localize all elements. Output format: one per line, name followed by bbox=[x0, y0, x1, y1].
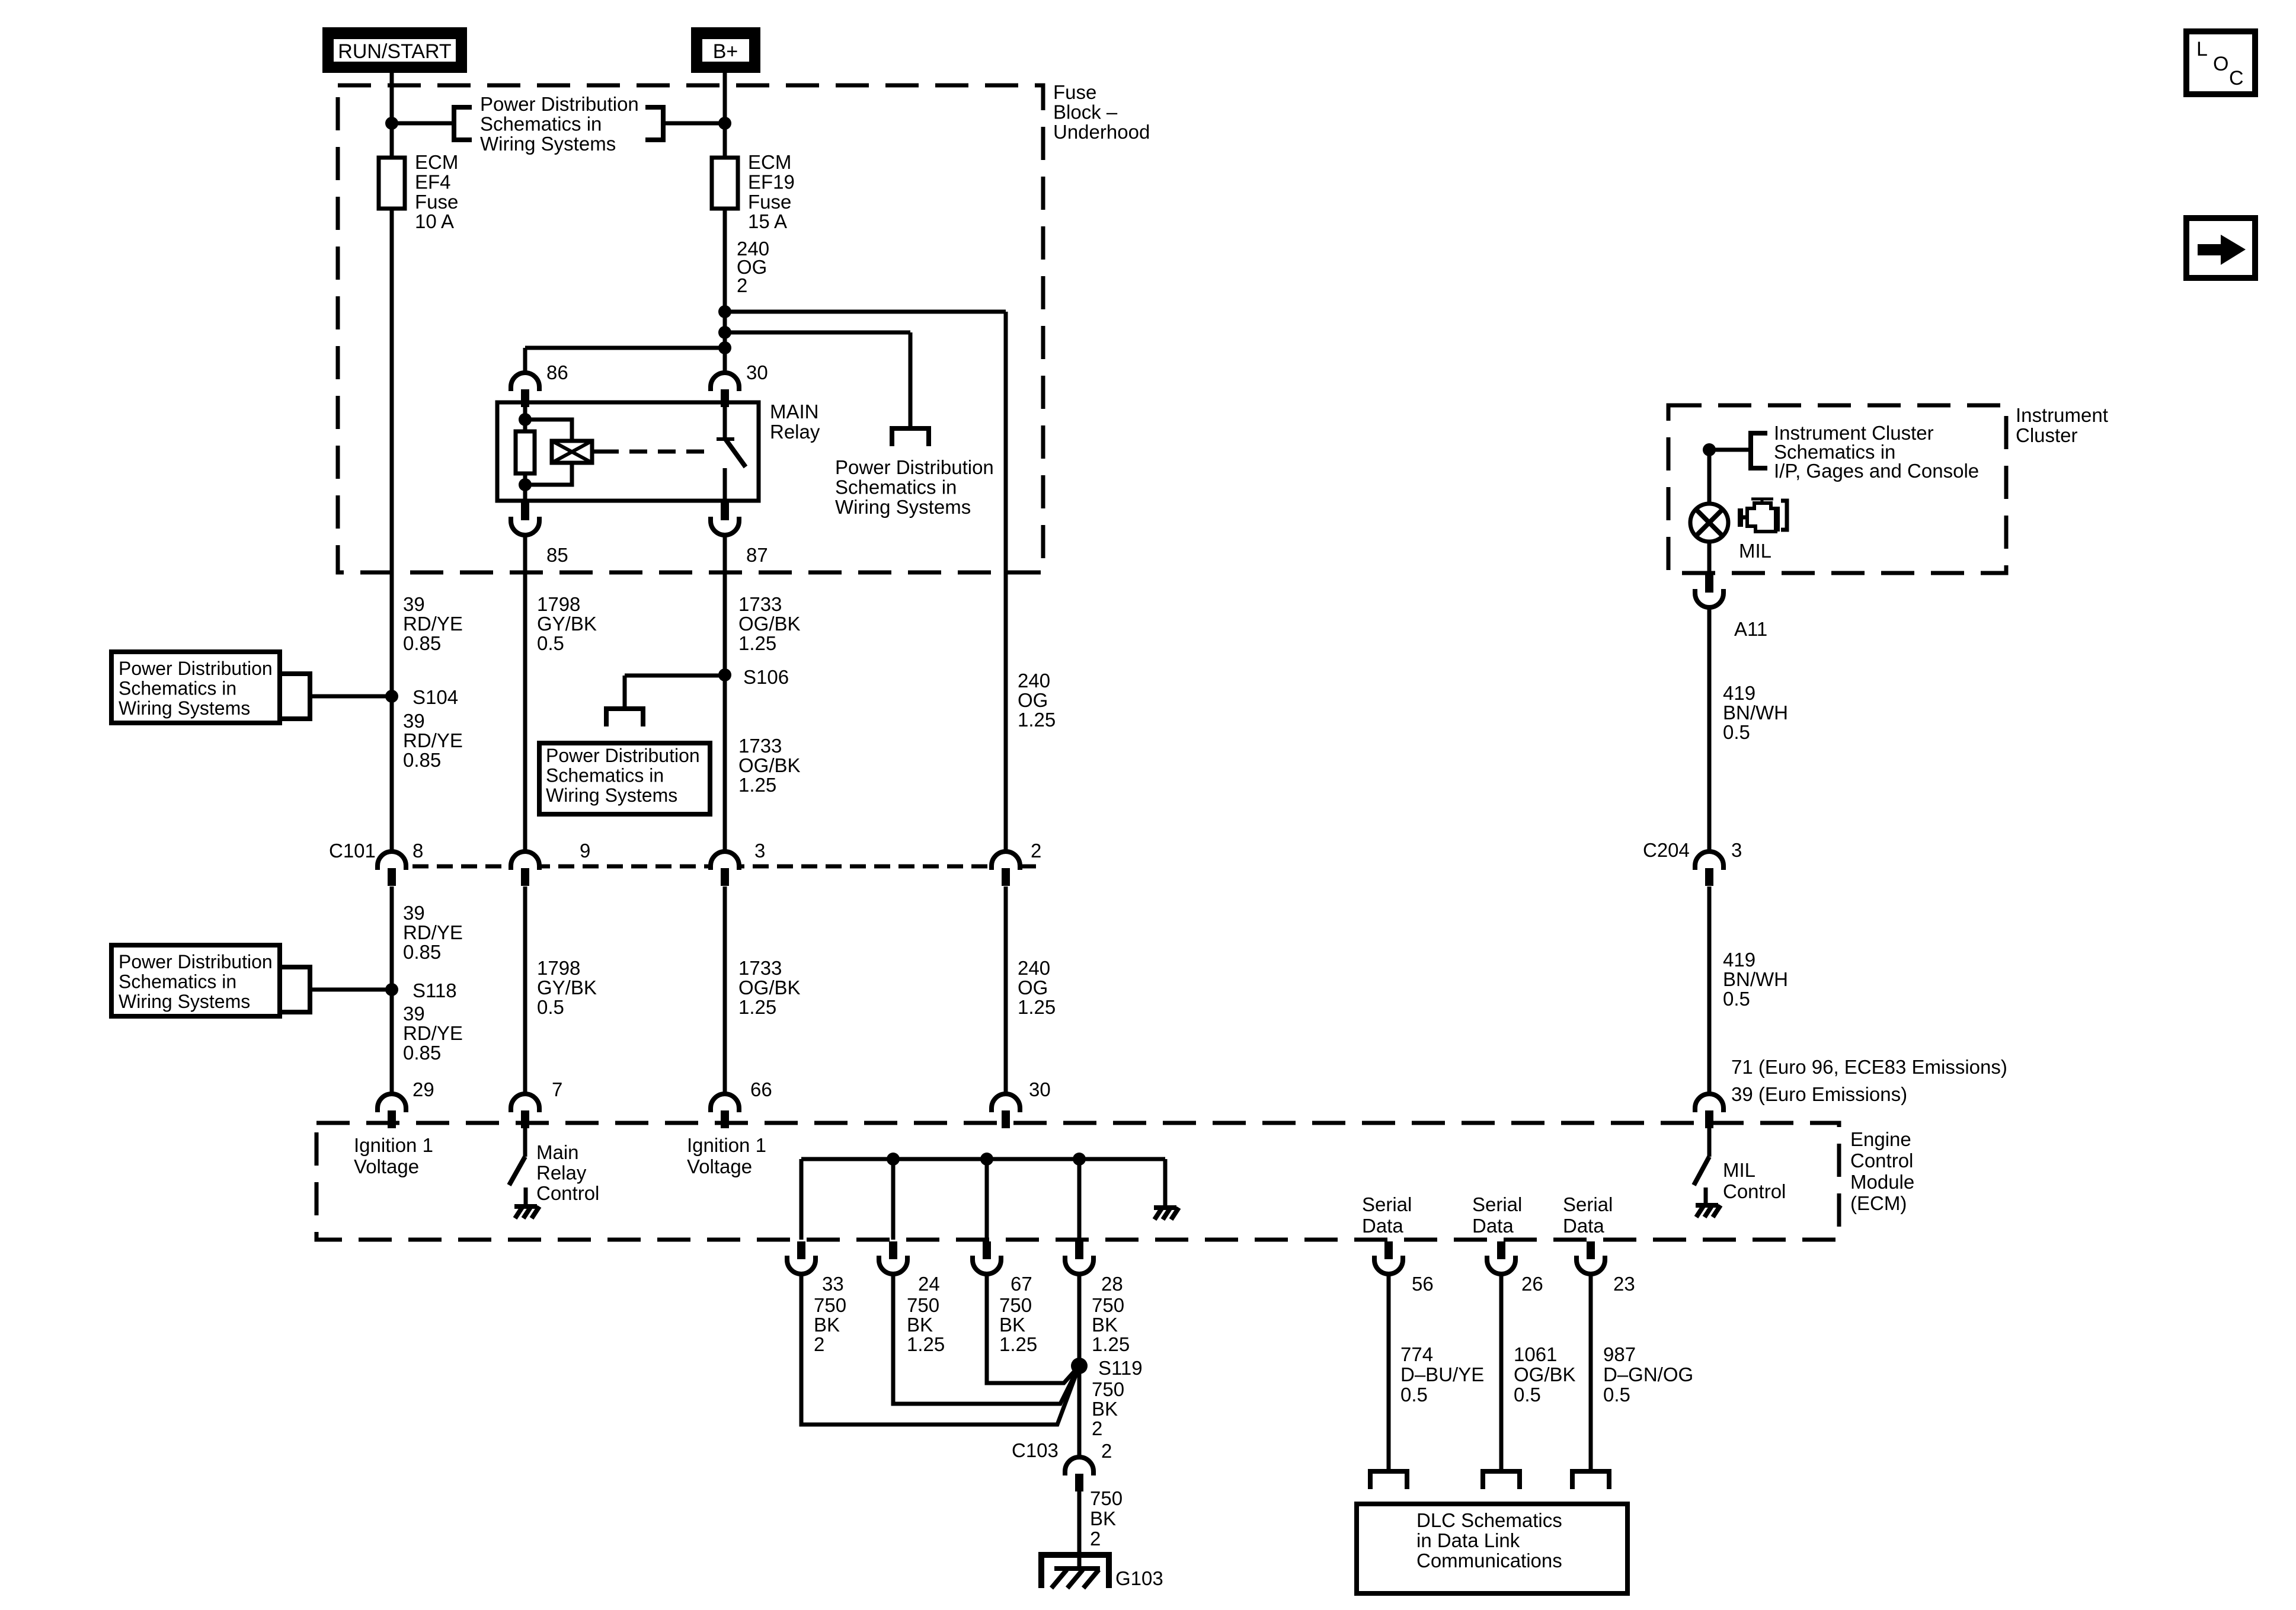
svg-text:Power Distribution: Power Distribution bbox=[119, 951, 273, 972]
svg-text:23: 23 bbox=[1613, 1273, 1635, 1295]
svg-text:RUN/START: RUN/START bbox=[338, 40, 451, 63]
svg-text:Relay: Relay bbox=[536, 1162, 587, 1184]
svg-text:33: 33 bbox=[822, 1273, 844, 1295]
svg-text:S106: S106 bbox=[743, 666, 789, 688]
svg-text:in Data Link: in Data Link bbox=[1416, 1529, 1520, 1551]
svg-text:0.5: 0.5 bbox=[1400, 1384, 1428, 1406]
svg-text:MIL: MIL bbox=[1739, 540, 1771, 562]
svg-text:BK: BK bbox=[1092, 1314, 1118, 1336]
svg-text:7: 7 bbox=[552, 1078, 562, 1100]
svg-text:3: 3 bbox=[1731, 839, 1742, 861]
svg-text:Wiring Systems: Wiring Systems bbox=[480, 133, 616, 155]
svg-text:ECM: ECM bbox=[748, 151, 791, 173]
svg-text:24: 24 bbox=[918, 1273, 940, 1295]
svg-text:2: 2 bbox=[814, 1333, 824, 1355]
svg-text:BN/WH: BN/WH bbox=[1723, 702, 1788, 724]
svg-text:0.5: 0.5 bbox=[537, 632, 564, 654]
svg-text:Data: Data bbox=[1472, 1215, 1514, 1237]
svg-text:0.85: 0.85 bbox=[403, 749, 441, 771]
svg-text:Serial: Serial bbox=[1362, 1193, 1412, 1215]
svg-text:D–BU/YE: D–BU/YE bbox=[1400, 1363, 1484, 1385]
svg-text:MAIN: MAIN bbox=[770, 401, 819, 422]
svg-text:Voltage: Voltage bbox=[354, 1156, 419, 1177]
svg-text:Module: Module bbox=[1850, 1171, 1914, 1193]
svg-text:1798: 1798 bbox=[537, 593, 580, 615]
svg-text:750: 750 bbox=[1092, 1378, 1124, 1400]
svg-text:GY/BK: GY/BK bbox=[537, 613, 597, 635]
svg-text:Data: Data bbox=[1362, 1215, 1403, 1237]
svg-text:MIL: MIL bbox=[1723, 1159, 1755, 1181]
svg-text:I/P, Gages and Console: I/P, Gages and Console bbox=[1774, 460, 1979, 482]
svg-text:56: 56 bbox=[1412, 1273, 1434, 1295]
svg-text:BN/WH: BN/WH bbox=[1723, 968, 1788, 990]
svg-text:BK: BK bbox=[814, 1314, 840, 1336]
svg-text:Voltage: Voltage bbox=[687, 1156, 752, 1177]
svg-text:987: 987 bbox=[1603, 1343, 1636, 1365]
svg-text:1.25: 1.25 bbox=[738, 632, 776, 654]
svg-text:B+: B+ bbox=[713, 40, 738, 63]
svg-text:Wiring Systems: Wiring Systems bbox=[119, 697, 250, 719]
svg-text:9: 9 bbox=[580, 840, 590, 862]
svg-text:71 (Euro 96, ECE83 Emissions): 71 (Euro 96, ECE83 Emissions) bbox=[1731, 1056, 2007, 1078]
svg-text:BK: BK bbox=[1092, 1398, 1118, 1420]
svg-text:2: 2 bbox=[1101, 1440, 1112, 1462]
svg-text:1.25: 1.25 bbox=[738, 774, 776, 796]
svg-text:66: 66 bbox=[750, 1078, 772, 1100]
svg-text:Ignition 1: Ignition 1 bbox=[354, 1134, 433, 1156]
svg-text:Schematics in: Schematics in bbox=[835, 476, 957, 498]
svg-text:86: 86 bbox=[546, 361, 568, 383]
svg-text:Power Distribution: Power Distribution bbox=[480, 93, 639, 115]
svg-text:EF19: EF19 bbox=[748, 171, 795, 193]
svg-text:39: 39 bbox=[403, 902, 425, 924]
svg-text:30: 30 bbox=[1029, 1078, 1051, 1100]
svg-text:Fuse: Fuse bbox=[1053, 81, 1096, 103]
svg-text:1.25: 1.25 bbox=[1018, 709, 1056, 731]
svg-text:DLC Schematics: DLC Schematics bbox=[1416, 1509, 1562, 1531]
svg-text:1733: 1733 bbox=[738, 735, 782, 757]
svg-text:1733: 1733 bbox=[738, 593, 782, 615]
svg-text:OG/BK: OG/BK bbox=[738, 613, 801, 635]
svg-text:750: 750 bbox=[1092, 1294, 1124, 1316]
svg-text:Wiring Systems: Wiring Systems bbox=[546, 785, 677, 806]
svg-text:10 A: 10 A bbox=[415, 210, 454, 232]
svg-text:OG: OG bbox=[1018, 977, 1048, 998]
svg-text:Engine: Engine bbox=[1850, 1128, 1911, 1150]
svg-text:2: 2 bbox=[1031, 840, 1041, 862]
svg-text:1.25: 1.25 bbox=[1018, 996, 1056, 1018]
svg-text:0.85: 0.85 bbox=[403, 632, 441, 654]
svg-text:Fuse: Fuse bbox=[748, 191, 791, 213]
svg-text:419: 419 bbox=[1723, 949, 1755, 971]
svg-text:Power Distribution: Power Distribution bbox=[835, 456, 994, 478]
svg-text:29: 29 bbox=[412, 1078, 434, 1100]
svg-text:OG/BK: OG/BK bbox=[738, 977, 801, 998]
svg-text:Communications: Communications bbox=[1416, 1550, 1562, 1571]
svg-text:Power Distribution: Power Distribution bbox=[546, 745, 700, 766]
svg-text:O: O bbox=[2213, 53, 2228, 75]
svg-text:750: 750 bbox=[1090, 1487, 1123, 1509]
svg-text:Wiring Systems: Wiring Systems bbox=[835, 496, 971, 518]
svg-text:28: 28 bbox=[1101, 1273, 1123, 1295]
svg-text:(ECM): (ECM) bbox=[1850, 1192, 1907, 1214]
svg-text:BK: BK bbox=[999, 1314, 1025, 1336]
svg-text:3: 3 bbox=[754, 840, 765, 862]
svg-text:0.5: 0.5 bbox=[1514, 1384, 1541, 1406]
svg-text:30: 30 bbox=[746, 361, 768, 383]
svg-text:67: 67 bbox=[1011, 1273, 1032, 1295]
svg-text:OG/BK: OG/BK bbox=[1514, 1363, 1576, 1385]
svg-text:39: 39 bbox=[403, 1003, 425, 1025]
svg-text:OG/BK: OG/BK bbox=[738, 754, 801, 776]
svg-text:S104: S104 bbox=[412, 686, 458, 708]
svg-text:Schematics in: Schematics in bbox=[546, 765, 664, 786]
svg-text:Wiring Systems: Wiring Systems bbox=[119, 991, 250, 1012]
svg-text:BK: BK bbox=[1090, 1507, 1116, 1529]
svg-text:8: 8 bbox=[412, 840, 423, 862]
svg-text:26: 26 bbox=[1521, 1273, 1543, 1295]
svg-text:Instrument: Instrument bbox=[2016, 404, 2108, 426]
svg-text:C103: C103 bbox=[1012, 1439, 1059, 1461]
svg-text:Block –: Block – bbox=[1053, 101, 1118, 123]
svg-text:D–GN/OG: D–GN/OG bbox=[1603, 1363, 1693, 1385]
svg-text:Serial: Serial bbox=[1563, 1193, 1613, 1215]
svg-text:750: 750 bbox=[907, 1294, 939, 1316]
svg-text:A11: A11 bbox=[1734, 618, 1767, 640]
svg-text:GY/BK: GY/BK bbox=[537, 977, 597, 998]
svg-text:1.25: 1.25 bbox=[738, 996, 776, 1018]
svg-text:1.25: 1.25 bbox=[1092, 1333, 1130, 1355]
svg-text:750: 750 bbox=[814, 1294, 846, 1316]
svg-text:0.85: 0.85 bbox=[403, 941, 441, 963]
svg-text:Control: Control bbox=[536, 1182, 599, 1204]
svg-text:S119: S119 bbox=[1098, 1357, 1143, 1379]
svg-text:Control: Control bbox=[1850, 1150, 1913, 1172]
svg-text:Data: Data bbox=[1563, 1215, 1604, 1237]
svg-text:RD/YE: RD/YE bbox=[403, 613, 463, 635]
svg-text:240: 240 bbox=[1018, 957, 1050, 979]
svg-text:Underhood: Underhood bbox=[1053, 121, 1150, 143]
svg-text:Control: Control bbox=[1723, 1180, 1786, 1202]
svg-text:39: 39 bbox=[403, 710, 425, 732]
svg-text:Cluster: Cluster bbox=[2016, 424, 2078, 446]
svg-text:OG: OG bbox=[1018, 689, 1048, 711]
svg-text:0.5: 0.5 bbox=[537, 996, 564, 1018]
svg-text:39 (Euro Emissions): 39 (Euro Emissions) bbox=[1731, 1083, 1907, 1105]
svg-text:240: 240 bbox=[1018, 670, 1050, 692]
svg-text:S118: S118 bbox=[412, 980, 457, 1001]
svg-text:C204: C204 bbox=[1643, 839, 1690, 861]
svg-text:G103: G103 bbox=[1115, 1567, 1163, 1589]
svg-text:39: 39 bbox=[403, 593, 425, 615]
svg-text:2: 2 bbox=[1090, 1528, 1101, 1550]
svg-text:87: 87 bbox=[746, 544, 768, 566]
svg-text:Schematics in: Schematics in bbox=[480, 113, 602, 135]
svg-text:1061: 1061 bbox=[1514, 1343, 1557, 1365]
svg-text:Power Distribution: Power Distribution bbox=[119, 658, 273, 679]
svg-text:RD/YE: RD/YE bbox=[403, 1022, 463, 1044]
svg-text:RD/YE: RD/YE bbox=[403, 729, 463, 751]
svg-text:Relay: Relay bbox=[770, 421, 820, 443]
svg-text:0.5: 0.5 bbox=[1723, 721, 1750, 743]
svg-text:85: 85 bbox=[546, 544, 568, 566]
svg-text:15 A: 15 A bbox=[748, 210, 787, 232]
svg-text:0.85: 0.85 bbox=[403, 1042, 441, 1064]
svg-text:1.25: 1.25 bbox=[907, 1333, 945, 1355]
svg-text:2: 2 bbox=[1092, 1417, 1102, 1439]
svg-text:Ignition 1: Ignition 1 bbox=[687, 1134, 766, 1156]
svg-text:1798: 1798 bbox=[537, 957, 580, 979]
svg-text:EF4: EF4 bbox=[415, 171, 451, 193]
svg-text:1.25: 1.25 bbox=[999, 1333, 1037, 1355]
svg-text:0.5: 0.5 bbox=[1603, 1384, 1630, 1406]
svg-text:ECM: ECM bbox=[415, 151, 458, 173]
svg-text:774: 774 bbox=[1400, 1343, 1433, 1365]
svg-text:0.5: 0.5 bbox=[1723, 988, 1750, 1010]
svg-text:750: 750 bbox=[999, 1294, 1032, 1316]
svg-text:C101: C101 bbox=[329, 840, 376, 862]
svg-text:RD/YE: RD/YE bbox=[403, 921, 463, 943]
svg-text:C: C bbox=[2229, 67, 2244, 89]
svg-text:419: 419 bbox=[1723, 682, 1755, 704]
svg-text:Serial: Serial bbox=[1472, 1193, 1522, 1215]
svg-text:Main: Main bbox=[536, 1141, 579, 1163]
svg-text:L: L bbox=[2196, 38, 2208, 60]
svg-text:1733: 1733 bbox=[738, 957, 782, 979]
svg-text:Schematics in: Schematics in bbox=[119, 678, 236, 699]
svg-text:Schematics in: Schematics in bbox=[119, 971, 236, 993]
svg-text:Fuse: Fuse bbox=[415, 191, 458, 213]
svg-text:BK: BK bbox=[907, 1314, 933, 1336]
svg-text:2: 2 bbox=[737, 274, 747, 296]
